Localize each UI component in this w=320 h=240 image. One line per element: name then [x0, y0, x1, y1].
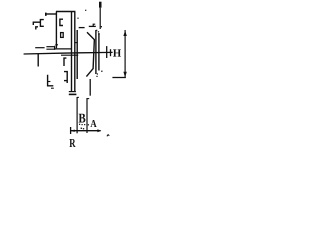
pulley flange 1 [95, 30, 97, 74]
front bracket edge [89, 79, 91, 96]
label R [69, 139, 75, 147]
fleck [101, 26, 102, 28]
pulley flange tick [96, 29, 97, 31]
pulley flange 2 [98, 33, 100, 71]
shaft stem [99, 8, 101, 29]
terminal lead tick [45, 13, 47, 16]
terminal block [61, 33, 64, 38]
label B [79, 114, 86, 123]
housing top edge [56, 11, 75, 13]
centerline cross tick 1 [106, 46, 108, 58]
stator tick [75, 42, 78, 44]
stator line 3 [76, 30, 78, 79]
connector plug bar [33, 22, 40, 25]
housing rib 2 [61, 54, 78, 56]
dimension B extension line 2 [86, 98, 88, 133]
shaft step [93, 24, 95, 27]
label H [113, 49, 121, 56]
stator line 2 [74, 12, 76, 92]
terminal lead [45, 13, 56, 15]
H arrow up [123, 30, 126, 36]
brush holder bracket [64, 72, 67, 83]
connector plug stub [36, 27, 38, 30]
H extension line [112, 77, 125, 79]
fan outline [86, 32, 94, 76]
housing tick [55, 44, 58, 46]
right arrowhead [97, 129, 101, 132]
left end tick [70, 127, 72, 134]
small check mark [107, 135, 109, 137]
centerline drop [37, 54, 39, 67]
centerline cross tick 2 [110, 49, 112, 56]
blade terminal lower / rib [46, 48, 71, 50]
small bracket [64, 58, 66, 66]
dimension H line [124, 30, 126, 78]
foot line 2 [69, 93, 77, 95]
regulator bracket [60, 19, 63, 25]
fan top dash 1 [79, 27, 85, 29]
fan top dash 2 [89, 25, 96, 27]
fan dots [77, 10, 102, 77]
H arrow down [123, 72, 126, 78]
shaft nut [99, 2, 102, 8]
mounting lug [48, 75, 54, 86]
connector plug bracket [40, 20, 43, 27]
label A [90, 120, 96, 127]
dots row [79, 124, 89, 130]
stator line 1 [71, 12, 73, 92]
foot line 1 [69, 91, 76, 93]
bottom dimension line [71, 130, 101, 132]
left arrowhead [71, 130, 75, 133]
dimension B extension line 1 [76, 97, 78, 133]
blade terminal dash [35, 47, 44, 49]
rib end tick [54, 46, 56, 50]
centerline [24, 52, 113, 54]
blade terminal upper [46, 46, 54, 48]
housing left wall [55, 12, 57, 49]
